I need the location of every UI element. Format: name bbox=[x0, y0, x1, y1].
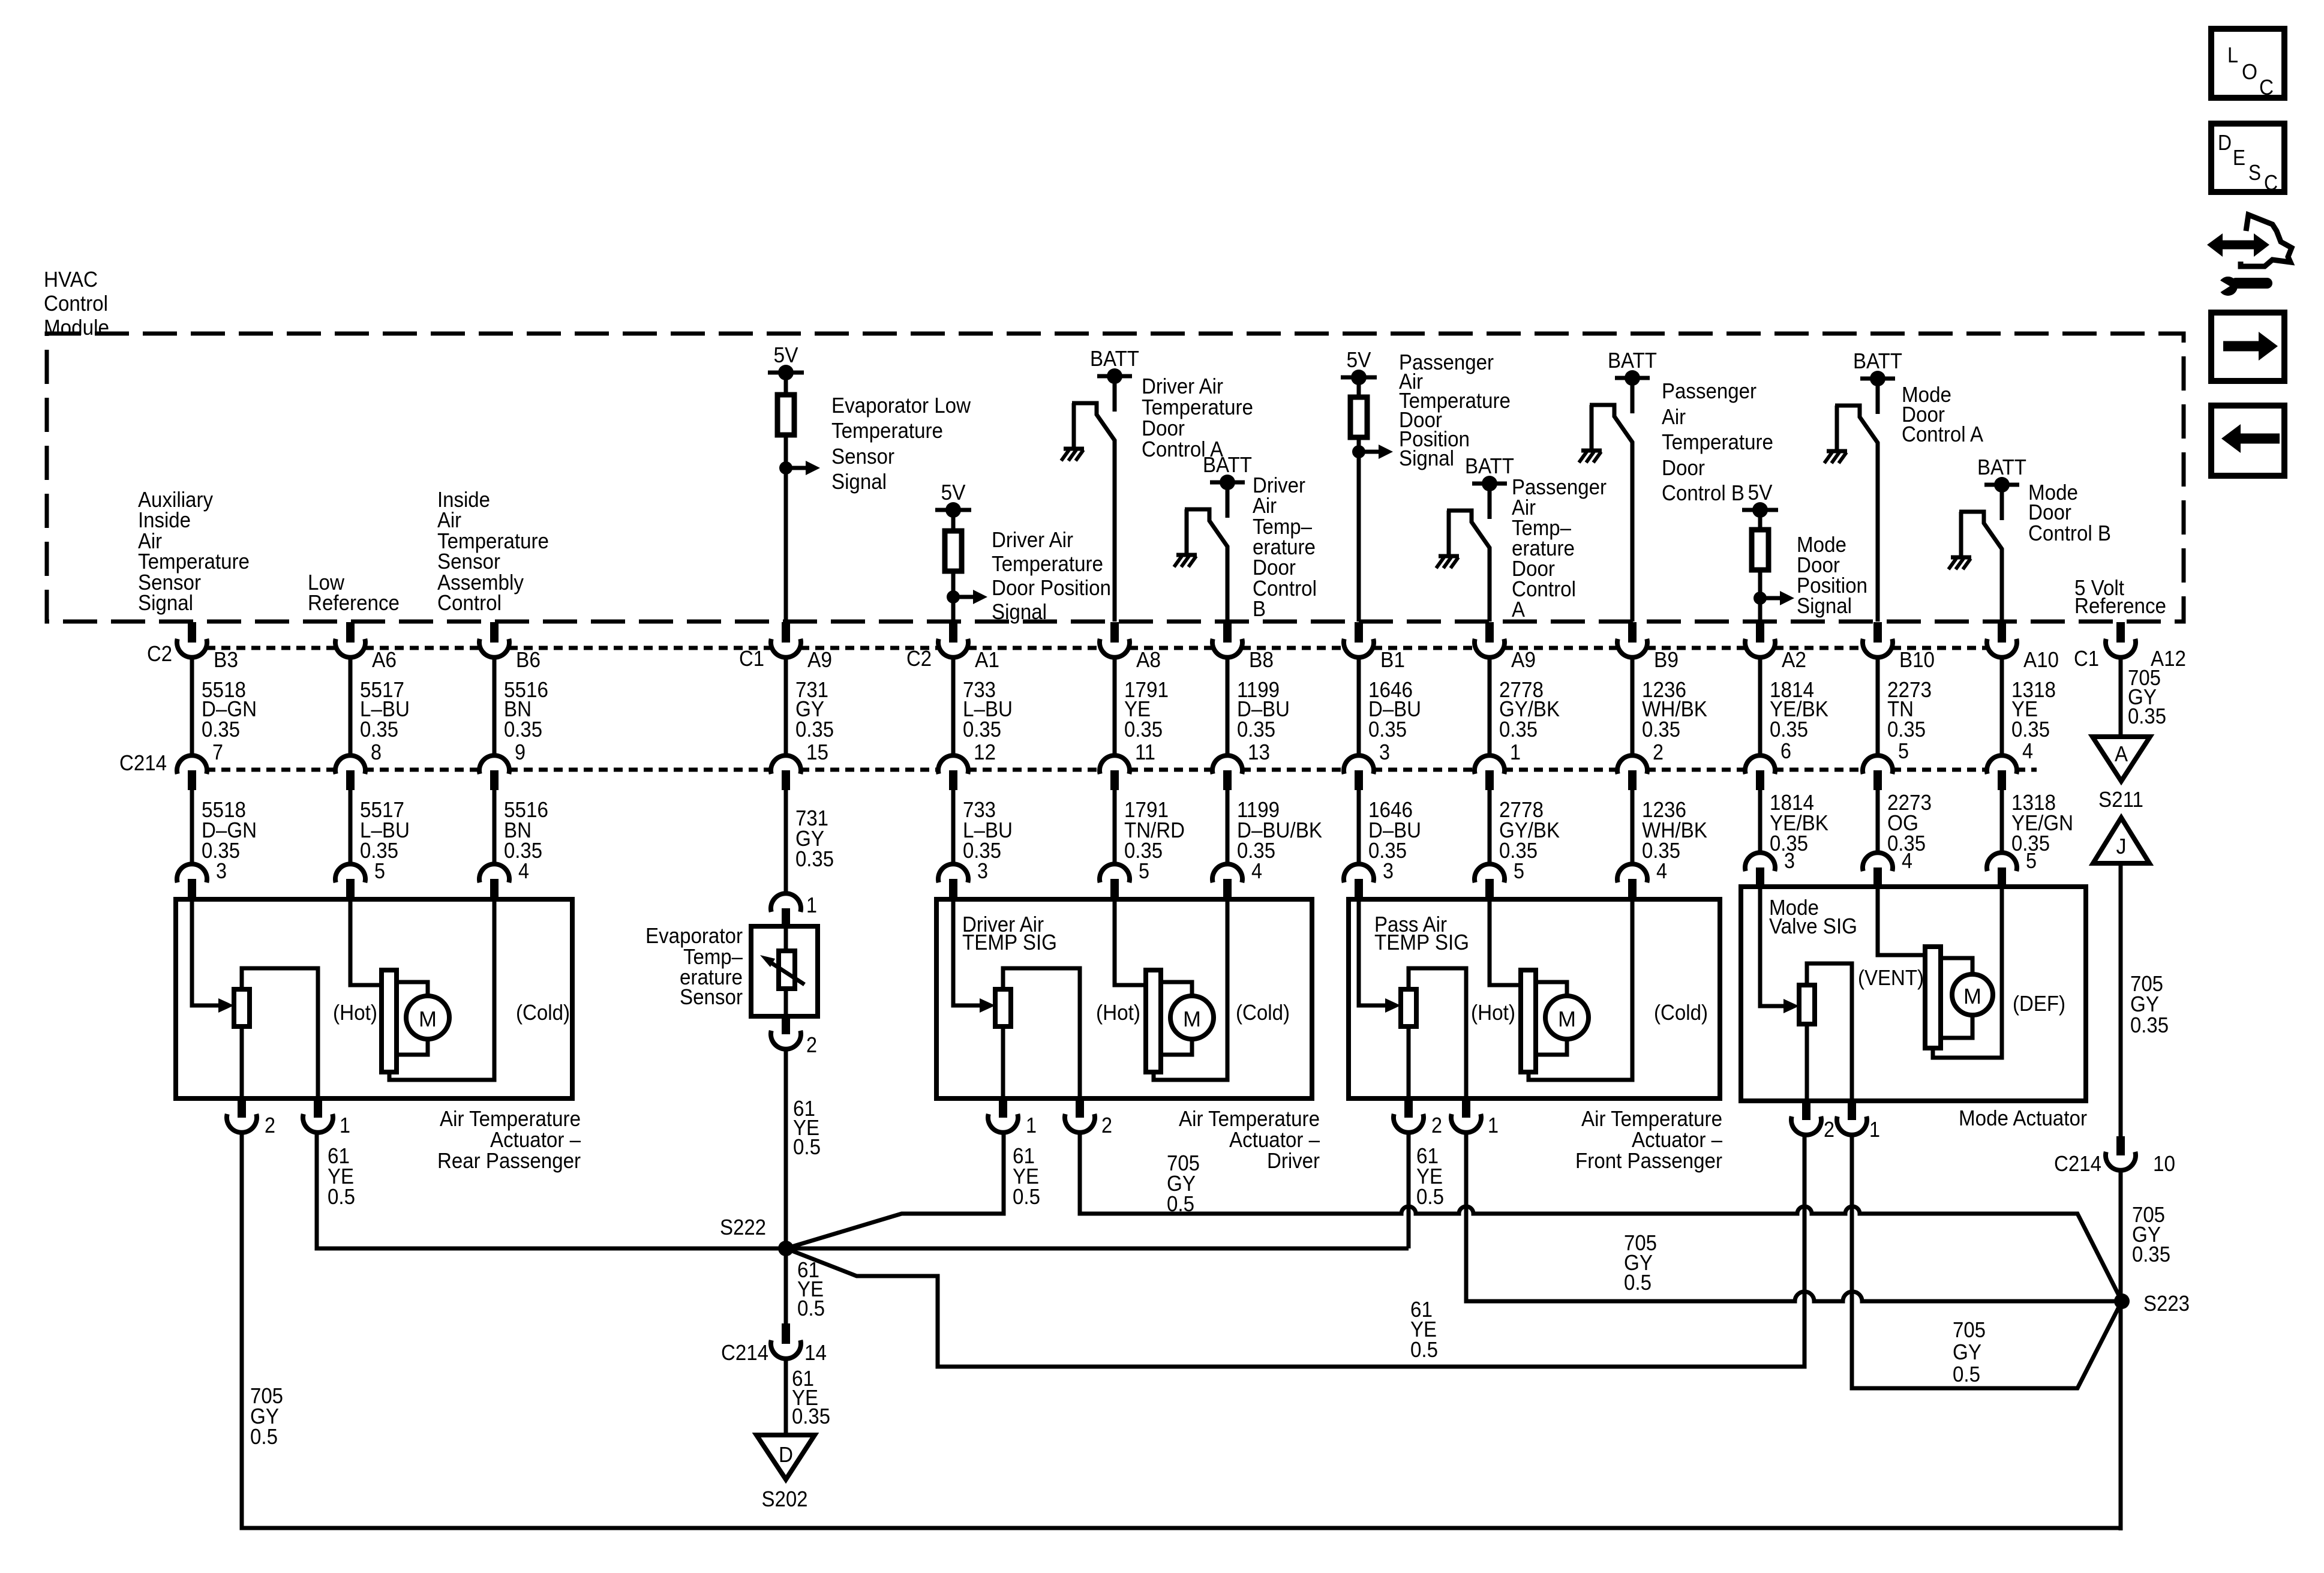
svg-text:13: 13 bbox=[1248, 740, 1270, 764]
svg-text:C: C bbox=[2264, 170, 2278, 195]
ground distribution triangle D bbox=[756, 1435, 815, 1479]
bottom connector pin 1 (air temperature actuator rear passenger) bbox=[314, 1098, 322, 1118]
svg-text:Control: Control bbox=[437, 590, 502, 615]
svg-text:Signal: Signal bbox=[992, 599, 1047, 624]
svg-text:0.5: 0.5 bbox=[797, 1296, 825, 1320]
svg-text:C: C bbox=[2259, 75, 2274, 100]
off-page triangle A bbox=[2092, 737, 2150, 781]
wire 61 YE 0.5 S222 to mode actuator pin 2 (long bottom run) bbox=[786, 1134, 1804, 1367]
connector pin A9 row-1 (x=1310) bbox=[782, 622, 790, 643]
wire 1814 YE/BK from pin A2 to C214 bbox=[1758, 656, 1762, 755]
branch wire from potentiometer to pin 2 (air temperature actuator driver) bbox=[1003, 968, 1080, 1098]
wire 1814 YE/BK from C214 pin 6 to mode actuator pin 3 bbox=[1758, 790, 1762, 852]
connector C214 pin 1 (x=2483) bbox=[1475, 755, 1505, 774]
wire pin 3 to position sensor wiper (air temperature actuator rear passenger) bbox=[192, 899, 218, 1005]
svg-text:Temperature: Temperature bbox=[831, 418, 943, 443]
svg-text:Door: Door bbox=[1662, 455, 1705, 480]
svg-text:A: A bbox=[2115, 742, 2128, 766]
connector pin B1 row-1 (x=2265) bbox=[1355, 622, 1363, 643]
wire 1646 D–BU from C214 pin 3 to component pin 3 bbox=[1357, 790, 1361, 864]
mode motor drive track bbox=[1925, 947, 1941, 1048]
svg-text:0.35: 0.35 bbox=[792, 1404, 830, 1428]
svg-text:5V: 5V bbox=[1347, 347, 1371, 372]
wire 705 GY 0.5 rear actuator pin 2 to bottom rail bbox=[242, 1131, 2119, 1528]
motor drive track (air temperature actuator driver) bbox=[1146, 970, 1161, 1072]
svg-text:Temperature: Temperature bbox=[1662, 430, 1773, 454]
next-page arrow box (right arrow) bbox=[2211, 313, 2284, 381]
motor drive track (air temperature actuator front passenger) bbox=[1521, 970, 1536, 1072]
wire from resistor to module pin (mode door position signal) bbox=[1758, 570, 1762, 622]
bottom connector pin 2 (air temperature actuator front passenger) bbox=[1404, 1098, 1413, 1118]
connector pin A6 row-1 (x=584) bbox=[346, 622, 355, 643]
svg-text:(Cold): (Cold) bbox=[1654, 1000, 1708, 1025]
svg-text:0.5: 0.5 bbox=[1953, 1362, 1980, 1386]
svg-text:Reference: Reference bbox=[2074, 593, 2166, 618]
evaporator sensor pin 2 connector bbox=[782, 1016, 790, 1034]
connector pin A8 row-1 (x=1858) bbox=[1110, 622, 1119, 643]
svg-text:Sensor: Sensor bbox=[831, 444, 894, 469]
wire 1791 TN/RD from C214 pin 11 to component pin 5 bbox=[1113, 790, 1117, 864]
svg-text:0.35: 0.35 bbox=[1124, 717, 1163, 742]
HVAC control module dashed box bbox=[47, 334, 2184, 622]
svg-text:E: E bbox=[2233, 145, 2245, 170]
connector C214 pin 5 (x=3130) bbox=[1863, 755, 1893, 774]
connector pin B9 row-1 (x=2721) bbox=[1628, 622, 1637, 643]
svg-text:4: 4 bbox=[1251, 858, 1262, 883]
svg-text:3: 3 bbox=[977, 858, 988, 883]
output driver switch (driver air temperature door control B) bbox=[1185, 509, 1227, 622]
ground (driver air temperature door control B) bbox=[1176, 553, 1197, 557]
svg-text:B8: B8 bbox=[1249, 647, 1274, 672]
svg-text:Rear Passenger: Rear Passenger bbox=[437, 1148, 581, 1173]
mode motor M bbox=[1941, 958, 1972, 974]
wire from resistor to module pin (passenger air temperature door position signal) bbox=[1357, 437, 1361, 622]
bottom connector pin 1 (air temperature actuator front passenger) bbox=[1462, 1098, 1470, 1118]
svg-text:A8: A8 bbox=[1136, 647, 1161, 672]
output driver switch (mode door control A) bbox=[1835, 406, 1878, 622]
svg-text:15: 15 bbox=[806, 740, 828, 764]
svg-text:J: J bbox=[2116, 834, 2127, 858]
svg-text:4: 4 bbox=[1656, 858, 1667, 883]
bottom connector pin 2 (air temperature actuator driver) bbox=[1076, 1098, 1084, 1118]
connector C214 pin 2 (x=2721) bbox=[1617, 755, 1647, 774]
svg-text:TEMP SIG: TEMP SIG bbox=[1374, 930, 1469, 954]
air temperature actuator rear passenger box bbox=[176, 899, 572, 1098]
wire pin 3 to position sensor wiper (air temperature actuator driver) bbox=[953, 899, 980, 1005]
svg-text:2: 2 bbox=[1653, 740, 1664, 764]
splice S223 bbox=[2114, 1293, 2130, 1309]
svg-text:5: 5 bbox=[1514, 858, 1524, 883]
connector pin B6 row-1 (x=824) bbox=[490, 622, 499, 643]
LOC legend box bbox=[2211, 29, 2284, 98]
svg-text:5V: 5V bbox=[774, 343, 798, 367]
branch wire from potentiometer to pin 1 (air temperature actuator front passenger) bbox=[1409, 968, 1466, 1098]
svg-text:C1: C1 bbox=[739, 646, 764, 671]
svg-text:(DEF): (DEF) bbox=[2013, 991, 2065, 1016]
ground (passenger air temperature door control B) bbox=[1581, 449, 1602, 453]
output driver switch (mode door control B) bbox=[1959, 512, 2002, 622]
wire 61 YE 0.35 from C214 pin 14 to ground triangle D bbox=[784, 1357, 788, 1435]
svg-text:(Cold): (Cold) bbox=[1236, 1000, 1290, 1025]
svg-text:O: O bbox=[2242, 59, 2257, 84]
mode position sensor potentiometer bbox=[1799, 985, 1815, 1024]
motor supply wire (Hot side) (air temperature actuator front passenger) bbox=[1490, 899, 1521, 985]
connector C214 pin 8 (x=584) bbox=[335, 755, 365, 774]
connector pin B10 row-1 (x=3130) bbox=[1873, 622, 1882, 643]
svg-text:1: 1 bbox=[1026, 1113, 1037, 1137]
svg-text:2: 2 bbox=[1824, 1117, 1834, 1142]
svg-text:Air: Air bbox=[1662, 404, 1686, 429]
svg-text:0.5: 0.5 bbox=[1410, 1337, 1438, 1362]
svg-text:0.35: 0.35 bbox=[1368, 717, 1407, 742]
vehicle section icon with double arrow and wrench bbox=[2221, 241, 2256, 250]
wire from resistor to module pin (driver air temperature door position signal) bbox=[951, 571, 956, 622]
connector C214 pin 10 bbox=[2116, 1136, 2125, 1155]
svg-text:705: 705 bbox=[1953, 1317, 1986, 1342]
connector pin A1 row-1 (x=1589) bbox=[949, 622, 957, 643]
svg-text:(Hot): (Hot) bbox=[1096, 1000, 1140, 1025]
svg-text:(Cold): (Cold) bbox=[516, 1000, 570, 1025]
air temperature actuator front passenger box bbox=[1349, 899, 1720, 1098]
wire 5516 BN from pin B6 to C214 bbox=[493, 656, 497, 755]
mode actuator connector pin 4 (x=3130) bbox=[1863, 852, 1893, 871]
previous-page arrow box (left arrow) bbox=[2211, 406, 2284, 476]
mode actuator connector pin 5 (x=3337) bbox=[1987, 852, 2017, 871]
svg-text:B3: B3 bbox=[214, 647, 238, 672]
connector C214 pin 13 (x=2046) bbox=[1212, 755, 1242, 774]
wire 61 YE 0.5 rear actuator pin 1 to S222 bbox=[317, 1131, 786, 1248]
svg-text:C2: C2 bbox=[147, 641, 172, 666]
motor return wire (Cold side) (air temperature actuator driver) bbox=[1154, 899, 1227, 1080]
svg-text:S202: S202 bbox=[762, 1487, 808, 1511]
wrench part of icon bbox=[2236, 278, 2267, 289]
svg-text:Signal: Signal bbox=[831, 469, 887, 494]
connector C214 dotted line row 2 bbox=[206, 768, 2037, 772]
svg-text:A9: A9 bbox=[807, 647, 832, 672]
svg-text:9: 9 bbox=[515, 740, 526, 764]
svg-text:B6: B6 bbox=[516, 647, 541, 672]
svg-text:Control B: Control B bbox=[1662, 481, 1744, 505]
svg-text:S223: S223 bbox=[2143, 1291, 2190, 1316]
svg-text:0.35: 0.35 bbox=[1887, 717, 1926, 742]
bottom connector pin 2 (air temperature actuator rear passenger) bbox=[238, 1098, 246, 1118]
ground (mode door control B) bbox=[1951, 556, 1971, 560]
svg-text:(Hot): (Hot) bbox=[1471, 1000, 1515, 1025]
svg-text:B9: B9 bbox=[1654, 647, 1679, 672]
svg-text:2: 2 bbox=[265, 1113, 275, 1137]
off-page triangle J bbox=[2093, 818, 2149, 863]
svg-text:12: 12 bbox=[974, 740, 996, 764]
svg-text:1: 1 bbox=[806, 893, 817, 917]
resistor (driver air temperature door position signal) bbox=[951, 510, 956, 531]
svg-text:A2: A2 bbox=[1782, 647, 1806, 672]
motor M (air temperature actuator front passenger) bbox=[1536, 982, 1567, 996]
wire from potentiometer to pin 2 (air temperature actuator rear passenger) bbox=[240, 1026, 244, 1098]
svg-text:10: 10 bbox=[2153, 1151, 2175, 1176]
svg-text:Evaporator Low: Evaporator Low bbox=[831, 393, 971, 418]
svg-text:4: 4 bbox=[1902, 848, 1912, 873]
svg-text:Mode Actuator: Mode Actuator bbox=[1959, 1106, 2087, 1130]
wire 705 GY 0.5 driver actuator pin 2 to splice S223 (with crossover hops) bbox=[1080, 1131, 2122, 1301]
svg-text:1: 1 bbox=[1869, 1117, 1880, 1142]
wire 733 L–BU from C214 pin 12 to component pin 3 bbox=[951, 790, 956, 864]
motor drive track (air temperature actuator rear passenger) bbox=[382, 970, 397, 1072]
svg-text:D: D bbox=[2218, 130, 2232, 155]
mode motor return wire (DEF side) bbox=[1933, 887, 2002, 1058]
wire 705 GY 0.35 from A12 to splice triangle A bbox=[2119, 656, 2123, 737]
svg-text:B1: B1 bbox=[1380, 647, 1405, 672]
svg-text:Signal: Signal bbox=[1797, 593, 1852, 618]
ground (passenger air temperature door control A) bbox=[1439, 554, 1459, 559]
svg-text:0.5: 0.5 bbox=[250, 1424, 278, 1449]
svg-text:3: 3 bbox=[1784, 848, 1795, 873]
position sensor potentiometer (air temperature actuator driver) bbox=[995, 989, 1011, 1026]
svg-text:7: 7 bbox=[212, 740, 223, 764]
svg-text:0.5: 0.5 bbox=[1013, 1184, 1040, 1209]
connector C214 pin 14 bbox=[782, 1323, 790, 1344]
wire 1199 D–BU/BK from C214 pin 13 to component pin 4 bbox=[1226, 790, 1230, 864]
svg-text:S222: S222 bbox=[720, 1215, 766, 1239]
svg-text:B: B bbox=[1253, 596, 1266, 621]
svg-text:C214: C214 bbox=[721, 1340, 768, 1365]
wire pin 3 to position sensor wiper (air temperature actuator front passenger) bbox=[1359, 899, 1385, 1005]
resistor (evaporator low temperature sensor signal) bbox=[784, 373, 788, 395]
wire 731 GY from pin A9 to C214 bbox=[784, 656, 788, 755]
svg-text:5: 5 bbox=[1898, 739, 1909, 763]
wire 5517 L–BU from pin A6 to C214 bbox=[349, 656, 353, 755]
svg-text:0.5: 0.5 bbox=[793, 1134, 821, 1159]
wire 2778 GY/BK from pin A9 to C214 bbox=[1488, 656, 1492, 755]
svg-text:0.35: 0.35 bbox=[360, 717, 398, 742]
svg-text:Door Position: Door Position bbox=[992, 575, 1111, 600]
motor supply wire (Hot side) (air temperature actuator rear passenger) bbox=[350, 899, 382, 985]
svg-text:Reference: Reference bbox=[308, 590, 400, 615]
connector C214 pin 6 (x=2934) bbox=[1745, 755, 1775, 774]
branch wire from potentiometer to pin 1 (air temperature actuator rear passenger) bbox=[242, 968, 318, 1098]
svg-text:C214: C214 bbox=[2054, 1151, 2101, 1176]
svg-text:Sensor: Sensor bbox=[680, 984, 743, 1009]
mode motor supply wire (VENT side) bbox=[1878, 887, 1925, 955]
connector C2/C1 dotted line row 1 bbox=[206, 646, 2016, 650]
svg-text:Control B: Control B bbox=[2028, 521, 2111, 545]
svg-text:S: S bbox=[2248, 160, 2261, 185]
connector C214 pin 3 (x=2265) bbox=[1344, 755, 1374, 774]
wire 1318 YE/GN from C214 pin 4 to mode actuator pin 5 bbox=[2000, 790, 2004, 852]
motor return wire (Cold side) (air temperature actuator front passenger) bbox=[1529, 899, 1632, 1080]
svg-text:0.5: 0.5 bbox=[1167, 1191, 1194, 1216]
svg-text:A6: A6 bbox=[372, 647, 397, 672]
svg-text:14: 14 bbox=[804, 1340, 827, 1365]
wire 1646 D–BU from pin B1 to C214 bbox=[1357, 656, 1361, 755]
svg-text:0.35: 0.35 bbox=[1237, 717, 1275, 742]
svg-text:0.35: 0.35 bbox=[963, 717, 1001, 742]
wire 1318 YE from pin A10 to C214 bbox=[2000, 656, 2004, 755]
svg-text:0.5: 0.5 bbox=[328, 1184, 355, 1209]
svg-text:C214: C214 bbox=[119, 751, 167, 775]
mode actuator connector pin 3 (x=2934) bbox=[1745, 852, 1775, 871]
svg-text:M: M bbox=[1963, 984, 1981, 1008]
svg-text:Module: Module bbox=[44, 315, 109, 340]
svg-text:2: 2 bbox=[1431, 1113, 1442, 1137]
wire 1236 WH/BK from C214 pin 2 to component pin 4 bbox=[1631, 790, 1635, 864]
connector C214 pin 9 (x=824) bbox=[479, 755, 509, 774]
motor M (air temperature actuator rear passenger) bbox=[397, 982, 428, 996]
connector pin B3 row-1 (x=320) bbox=[188, 622, 196, 643]
svg-text:4: 4 bbox=[518, 858, 529, 883]
svg-text:0.35: 0.35 bbox=[2132, 1242, 2170, 1266]
wire 705 GY 0.35 from triangle J down to C214 pin 10 bbox=[2119, 863, 2123, 1136]
component connector pin 5 (x=2483) bbox=[1475, 864, 1505, 882]
svg-text:5: 5 bbox=[2026, 848, 2037, 873]
connector pin B8 row-1 (x=2046) bbox=[1223, 622, 1232, 643]
mode bottom connector pin 2 bbox=[1802, 1101, 1810, 1120]
svg-text:TEMP SIG: TEMP SIG bbox=[962, 930, 1057, 954]
svg-text:0.35: 0.35 bbox=[202, 717, 240, 742]
component connector pin 4 (x=824) bbox=[479, 864, 509, 882]
svg-text:Signal: Signal bbox=[1399, 446, 1454, 470]
connector pin A2 row-1 (x=2934) bbox=[1756, 622, 1764, 643]
wire 2273 OG from C214 pin 5 to mode actuator pin 4 bbox=[1876, 790, 1880, 852]
svg-text:BATT: BATT bbox=[1853, 349, 1902, 373]
svg-text:2: 2 bbox=[806, 1032, 817, 1057]
component connector pin 5 (x=1858) bbox=[1100, 864, 1130, 882]
svg-text:A: A bbox=[1512, 597, 1525, 622]
component connector pin 3 (x=2265) bbox=[1344, 864, 1374, 882]
wire 61 YE 0.5 from S222 down to C214 pin 14 bbox=[784, 1248, 788, 1323]
svg-text:5V: 5V bbox=[1748, 480, 1773, 505]
junction and signal arrow (driver air temperature door position signal) bbox=[947, 590, 960, 604]
component connector pin 3 (x=320) bbox=[177, 864, 207, 882]
svg-text:GY: GY bbox=[1953, 1340, 1981, 1364]
wire 705 GY 0.5 front passenger pin 1 to S223 (with crossover hops) bbox=[1466, 1131, 2122, 1301]
output driver switch (driver air temperature door control A) bbox=[1072, 403, 1115, 622]
svg-text:0.5: 0.5 bbox=[1416, 1184, 1444, 1209]
connector C214 pin 12 (x=1589) bbox=[938, 755, 968, 774]
svg-text:Signal: Signal bbox=[138, 590, 193, 615]
wire 61 YE 0.5 S222 to front passenger actuator pin 2 bbox=[786, 1131, 1409, 1248]
svg-text:Temperature: Temperature bbox=[992, 551, 1103, 576]
svg-text:Control: Control bbox=[44, 291, 108, 316]
svg-text:D: D bbox=[779, 1442, 793, 1467]
connector C214 pin 11 (x=1858) bbox=[1100, 755, 1130, 774]
svg-text:BATT: BATT bbox=[1090, 346, 1139, 371]
svg-text:8: 8 bbox=[371, 740, 382, 764]
wire 1791 YE from pin A8 to C214 bbox=[1113, 656, 1117, 755]
wire 705 GY 0.5 from S223 down to bottom rail bbox=[2119, 1301, 2123, 1530]
svg-text:1: 1 bbox=[1510, 740, 1521, 764]
resistor (passenger air temperature door position signal) bbox=[1357, 377, 1361, 397]
connector C214 pin 4 (x=3337) bbox=[1987, 755, 2017, 774]
wire 1199 D–BU from pin B8 to C214 bbox=[1226, 656, 1230, 755]
svg-text:3: 3 bbox=[216, 858, 227, 883]
svg-text:Driver Air: Driver Air bbox=[992, 527, 1073, 552]
wire 705 GY 0.35 from C214 pin 10 to splice S223 bbox=[2119, 1169, 2123, 1301]
resistor (mode door position signal) bbox=[1758, 510, 1762, 530]
svg-text:M: M bbox=[419, 1007, 437, 1031]
svg-text:0.35: 0.35 bbox=[1642, 717, 1680, 742]
svg-text:Passenger: Passenger bbox=[1662, 379, 1756, 403]
svg-text:B10: B10 bbox=[1899, 647, 1935, 672]
svg-text:M: M bbox=[1183, 1007, 1201, 1031]
mode actuator box bbox=[1741, 887, 2086, 1101]
mode bottom connector pin 1 bbox=[1848, 1101, 1856, 1120]
thermistor element bbox=[784, 927, 788, 1015]
wire 5517 L–BU from C214 pin 8 to component pin 5 bbox=[349, 790, 353, 864]
svg-text:L: L bbox=[2227, 43, 2238, 67]
svg-text:A9: A9 bbox=[1511, 647, 1536, 672]
connector pin A12 row-1 (C1) bbox=[2116, 622, 2125, 643]
ground (mode door control A) bbox=[1827, 449, 1847, 454]
wire 5516 BN from C214 pin 9 to component pin 4 bbox=[493, 790, 497, 864]
output driver switch (passenger air temperature door control B) bbox=[1590, 405, 1632, 622]
component connector pin 4 (x=2721) bbox=[1617, 864, 1647, 882]
wire from potentiometer to pin 1 (air temperature actuator driver) bbox=[1001, 1026, 1005, 1098]
svg-text:6: 6 bbox=[1780, 739, 1791, 763]
junction and signal arrow (passenger air temperature door position signal) bbox=[1352, 445, 1365, 458]
svg-text:0.35: 0.35 bbox=[795, 717, 834, 742]
svg-text:5: 5 bbox=[374, 858, 385, 883]
bottom connector pin 1 (air temperature actuator driver) bbox=[999, 1098, 1007, 1118]
svg-text:C1: C1 bbox=[2074, 646, 2099, 671]
svg-text:0.35: 0.35 bbox=[1499, 717, 1538, 742]
wire from potentiometer to pin 2 (air temperature actuator front passenger) bbox=[1407, 1026, 1411, 1098]
motor return wire (Cold side) (air temperature actuator rear passenger) bbox=[389, 899, 494, 1080]
wire 705 GY 0.5 mode actuator pin 1 to S223 bbox=[1852, 1134, 2122, 1388]
wire 2273 TN from pin B10 to C214 bbox=[1876, 656, 1880, 755]
svg-text:11: 11 bbox=[1135, 740, 1155, 764]
svg-text:0.35: 0.35 bbox=[2130, 1013, 2169, 1037]
svg-text:5: 5 bbox=[1139, 858, 1149, 883]
svg-text:BATT: BATT bbox=[1608, 348, 1657, 373]
component connector pin 4 (x=2046) bbox=[1212, 864, 1242, 882]
branch wire from mode potentiometer to pin 1 bbox=[1807, 963, 1852, 1101]
connector C214 pin 7 (x=320) bbox=[177, 755, 207, 774]
motor supply wire (Hot side) (air temperature actuator driver) bbox=[1115, 899, 1146, 985]
svg-text:A1: A1 bbox=[975, 647, 999, 672]
wire 1236 WH/BK from pin B9 to C214 bbox=[1631, 656, 1635, 755]
wire 61 YE 0.5 S222 to driver actuator pin 1 bbox=[786, 1131, 1004, 1248]
junction and signal arrow (mode door position signal) bbox=[1753, 592, 1767, 605]
svg-text:Valve SIG: Valve SIG bbox=[1769, 914, 1857, 938]
svg-text:M: M bbox=[1558, 1007, 1576, 1031]
wire 731 GY to evaporator temperature sensor pin 1 bbox=[784, 790, 788, 893]
svg-text:C2: C2 bbox=[906, 646, 932, 671]
svg-text:0.35: 0.35 bbox=[1770, 717, 1808, 742]
output driver switch (passenger air temperature door control A) bbox=[1447, 511, 1490, 622]
evaporator sensor connector pin 1 bbox=[771, 893, 801, 912]
svg-text:4: 4 bbox=[2022, 739, 2033, 763]
svg-text:0.35: 0.35 bbox=[795, 846, 834, 871]
wire from resistor to module pin (evaporator low temperature sensor signal) bbox=[784, 435, 788, 622]
connector C214 pin 15 (x=1310) bbox=[771, 755, 801, 774]
svg-text:3: 3 bbox=[1383, 858, 1394, 883]
DESC legend box bbox=[2211, 124, 2284, 192]
svg-text:3: 3 bbox=[1379, 740, 1390, 764]
ground (driver air temperature door control A) bbox=[1064, 447, 1084, 451]
svg-text:S211: S211 bbox=[2098, 787, 2143, 812]
svg-text:0.35: 0.35 bbox=[504, 717, 542, 742]
svg-text:Control A: Control A bbox=[1902, 422, 1983, 446]
junction and signal arrow (evaporator low temperature sensor signal) bbox=[779, 461, 792, 475]
svg-text:A10: A10 bbox=[2023, 647, 2059, 672]
svg-text:0.35: 0.35 bbox=[2011, 717, 2050, 742]
svg-text:BATT: BATT bbox=[1465, 454, 1514, 478]
wire 733 L–BU from pin A1 to C214 bbox=[951, 656, 956, 755]
wire from mode potentiometer to pin 2 bbox=[1805, 1024, 1809, 1101]
svg-text:BATT: BATT bbox=[1203, 452, 1252, 477]
svg-text:HVAC: HVAC bbox=[44, 267, 98, 292]
svg-text:1: 1 bbox=[1488, 1113, 1499, 1137]
